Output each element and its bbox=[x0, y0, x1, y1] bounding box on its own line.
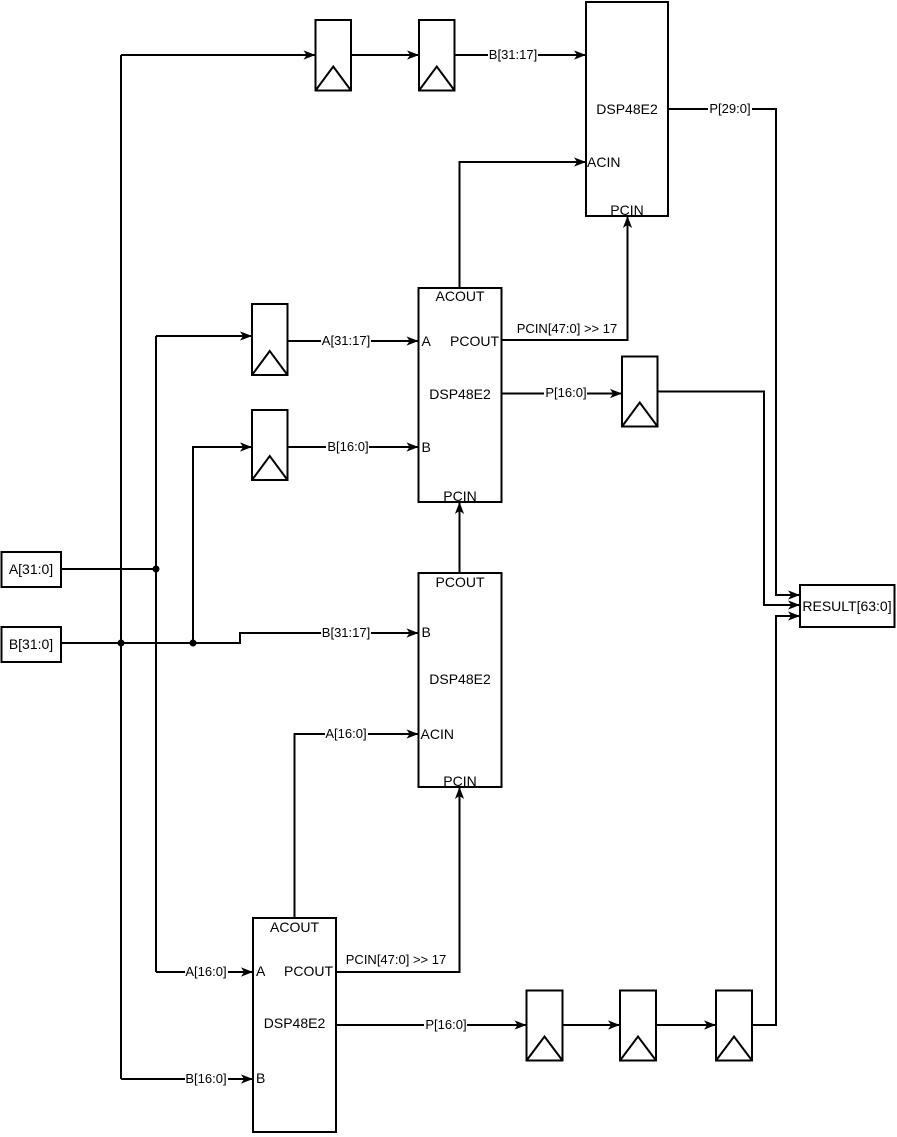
wire B[31:0] box to U3 pin B, B[31:17] bbox=[61, 625, 419, 643]
wire U1 P[29:0] to RESULT bbox=[668, 101, 800, 595]
wire A trunk vertical (net A) bbox=[155, 336, 157, 972]
flip-flop FF5 (P[16:0] mid pipeline reg) bbox=[622, 357, 658, 427]
wire FF5 to RESULT bbox=[658, 392, 801, 606]
svg-text:B[16:0]: B[16:0] bbox=[327, 439, 368, 454]
svg-text:ACIN: ACIN bbox=[421, 726, 454, 742]
wire A[31:0] box to junction bbox=[61, 568, 156, 570]
svg-text:PCOUT: PCOUT bbox=[284, 963, 333, 979]
wire U2 P[16:0] to FF5 bbox=[502, 385, 623, 401]
svg-text:A: A bbox=[422, 333, 432, 349]
svg-text:B[31:17]: B[31:17] bbox=[322, 625, 370, 640]
svg-text:B[31:0]: B[31:0] bbox=[9, 636, 53, 652]
svg-text:PCOUT: PCOUT bbox=[450, 333, 499, 349]
svg-text:DSP48E2: DSP48E2 bbox=[596, 101, 658, 117]
wire FF8 to RESULT bbox=[752, 616, 800, 1025]
wire U4 P[16:0] to FF6 bbox=[336, 1017, 527, 1033]
svg-text:DSP48E2: DSP48E2 bbox=[264, 1015, 326, 1031]
flip-flop FF8 (bottom pipeline reg 3) bbox=[716, 991, 752, 1061]
wire FF6 to FF7 bbox=[563, 1024, 621, 1026]
svg-text:ACOUT: ACOUT bbox=[436, 288, 485, 304]
svg-text:RESULT[63:0]: RESULT[63:0] bbox=[802, 598, 891, 614]
wire U3 PCOUT to U2 PCIN bbox=[459, 502, 461, 573]
wire B trunk to U4 pin B bbox=[121, 1071, 253, 1087]
wire FF7 to FF8 bbox=[656, 1024, 716, 1026]
svg-text:ACOUT: ACOUT bbox=[270, 919, 319, 935]
svg-text:B: B bbox=[422, 439, 431, 455]
svg-text:ACIN: ACIN bbox=[587, 154, 620, 170]
svg-text:DSP48E2: DSP48E2 bbox=[429, 386, 491, 402]
svg-text:B: B bbox=[256, 1070, 265, 1086]
svg-text:PCOUT: PCOUT bbox=[436, 574, 485, 590]
wire A trunk to FF3 bbox=[156, 335, 252, 337]
flip-flop FF6 (bottom pipeline reg 1) bbox=[527, 991, 563, 1061]
node A junction bbox=[153, 566, 160, 573]
svg-text:DSP48E2: DSP48E2 bbox=[429, 671, 491, 687]
DSP48E2 U1 (top) bbox=[586, 2, 668, 218]
svg-text:PCIN: PCIN bbox=[610, 202, 643, 218]
svg-text:B[16:0]: B[16:0] bbox=[185, 1071, 226, 1086]
svg-text:A[16:0]: A[16:0] bbox=[325, 726, 366, 741]
wire FF4 to U2 pin B, B[16:0] bbox=[288, 439, 419, 455]
flip-flop FF3 (A[31:17] input reg) bbox=[252, 304, 288, 375]
input port B[31:0] bbox=[2, 627, 62, 662]
wire A trunk to U4 pin A bbox=[156, 964, 253, 980]
DSP48E2 U4 (bottom) bbox=[253, 918, 336, 1132]
wire U4 ACOUT to U3 ACIN, A[16:0] bbox=[295, 726, 419, 918]
svg-text:A[31:0]: A[31:0] bbox=[9, 561, 53, 577]
DSP48E2 U3 (third) bbox=[419, 573, 502, 789]
flip-flop FF1 (top pipeline reg 1) bbox=[316, 20, 352, 91]
DSP48E2 U2 (middle) bbox=[419, 288, 502, 504]
wire U2 ACOUT to U1 ACIN bbox=[460, 162, 587, 288]
node B junction 1 bbox=[118, 640, 125, 647]
wire B trunk vertical (net B) bbox=[120, 55, 122, 1079]
svg-text:P[16:0]: P[16:0] bbox=[545, 385, 586, 400]
wire FF1 to FF2 bbox=[351, 54, 419, 56]
svg-text:A: A bbox=[256, 963, 266, 979]
wire FF3 to U2 pin A, A[31:17] bbox=[288, 333, 419, 349]
svg-text:B: B bbox=[422, 624, 431, 640]
wire U2 PCOUT to U1 PCIN (shift 17) bbox=[502, 216, 628, 340]
svg-text:B[31:17]: B[31:17] bbox=[489, 47, 537, 62]
svg-text:PCIN[47:0] >> 17: PCIN[47:0] >> 17 bbox=[346, 952, 446, 967]
wire FF2 to U1 input B[31:17] bbox=[455, 47, 587, 63]
svg-text:A[16:0]: A[16:0] bbox=[185, 964, 226, 979]
flip-flop FF4 (B[16:0] input reg) bbox=[252, 410, 288, 480]
wire B branch vertical to FF4 bbox=[193, 447, 252, 643]
svg-text:PCIN: PCIN bbox=[443, 773, 476, 789]
svg-text:A[31:17]: A[31:17] bbox=[322, 333, 370, 348]
svg-text:P[29:0]: P[29:0] bbox=[709, 101, 750, 116]
input port A[31:0] bbox=[2, 552, 62, 587]
flip-flop FF7 (bottom pipeline reg 2) bbox=[620, 991, 656, 1061]
wire U4 PCOUT to U3 PCIN (shift 17) bbox=[336, 787, 460, 972]
svg-text:PCIN: PCIN bbox=[443, 488, 476, 504]
node B junction 2 bbox=[190, 640, 197, 647]
svg-text:PCIN[47:0] >> 17: PCIN[47:0] >> 17 bbox=[517, 321, 617, 336]
svg-text:P[16:0]: P[16:0] bbox=[425, 1017, 466, 1032]
output port RESULT[63:0] bbox=[800, 585, 895, 627]
flip-flop FF2 (top pipeline reg 2) bbox=[419, 20, 455, 91]
wire B trunk to FF1 bbox=[121, 54, 316, 56]
